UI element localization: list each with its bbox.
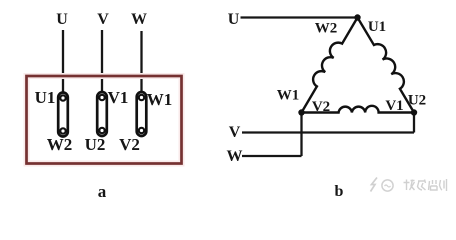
svg-text:U2: U2 [85,135,106,154]
terminal strip U1-W2 [58,93,68,137]
svg-text:a: a [98,182,107,201]
svg-text:U1: U1 [35,88,56,107]
svg-text:W2: W2 [47,135,73,154]
svg-text:V: V [229,124,241,141]
svg-text:W: W [227,148,243,165]
watermark logo circle [382,180,393,191]
svg-text:U: U [228,11,240,28]
terminal box outline [27,76,182,164]
svg-text:V: V [97,11,109,28]
wire U lead-in [62,30,64,93]
wire riser U2 corner [413,113,415,133]
junction dot apex U1 [354,14,360,20]
svg-text:W2: W2 [315,21,338,37]
wire W to W1 corner [242,155,302,157]
svg-text:V2: V2 [119,135,140,154]
watermark text 技成培训 (glyph mimic) [404,179,447,191]
svg-text:b: b [335,183,344,200]
svg-text:W1: W1 [277,88,300,104]
wire V lead-in [101,30,103,92]
wire U to apex [241,16,356,18]
winding U1-U2 (right side coil) [358,18,415,113]
svg-text:U: U [56,11,68,28]
terminal strip V1-U2 [97,92,107,136]
watermark logo lightning [371,178,378,192]
junction dot W1 corner [298,109,304,115]
svg-text:W1: W1 [147,90,173,109]
wire V to U2 corner [242,131,414,133]
terminal strip W1-V2 [137,92,147,136]
svg-text:W: W [131,11,147,28]
svg-text:V1: V1 [108,88,129,107]
svg-text:V2: V2 [312,99,330,115]
svg-text:V1: V1 [385,98,403,114]
winding V2-V1 (bottom coil) [302,106,415,113]
svg-text:U1: U1 [368,19,386,35]
junction dot U2 corner [411,109,417,115]
wire W lead-in [140,31,142,92]
svg-text:U2: U2 [408,93,426,109]
wire riser W1 corner [300,113,302,157]
winding W2-U1 (left side coil) [302,18,358,113]
